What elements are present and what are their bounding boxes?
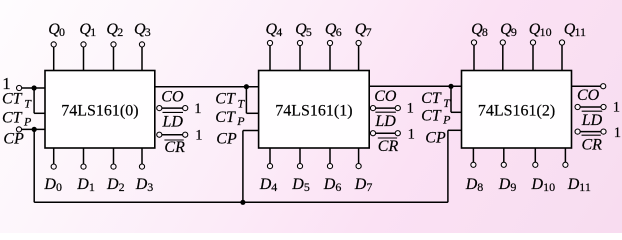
node D10 label [531,176,556,194]
wire CO U2 to CT_T U3 [369,85,461,87]
wire CR tie-high U2 [373,132,398,134]
value 1 on LD U2 [407,101,414,117]
wire junction down to CT_P U3 [451,86,462,112]
node Q6 label [325,21,342,39]
label CO carry output U1 [161,88,184,105]
svg-text:9: 9 [511,25,517,39]
svg-text:CT: CT [2,109,23,126]
svg-text:D: D [43,176,56,193]
svg-text:1: 1 [407,101,414,117]
node Q2 label [106,21,123,39]
svg-text:CR: CR [164,139,185,156]
svg-text:CO: CO [161,88,184,105]
4-bit counter U2 74LS161(1) [259,71,370,149]
svg-text:D: D [135,176,148,193]
svg-text:3: 3 [145,25,151,39]
svg-text:D: D [106,176,119,193]
pin D0 terminal [51,148,56,169]
node D8 label [465,176,484,194]
svg-text:D: D [76,176,89,193]
terminal circle 1-source U1 [17,85,22,90]
svg-text:8: 8 [482,25,488,39]
svg-text:LD: LD [374,113,396,130]
label CT_T input U2 [215,90,245,110]
node D11 label [567,176,591,194]
svg-text:6: 6 [335,180,341,194]
junction CO U2 to CT_P U3 [448,84,453,89]
node D5 label [291,176,310,194]
wire clock riser to CP U2 [243,131,259,203]
wire clock bus left riser [33,129,35,202]
svg-text:P: P [23,115,32,129]
pin Q3 terminal [139,42,144,71]
node D7 label [354,176,373,194]
node Q4 label [266,21,283,39]
label CP clock input U2 [216,130,237,147]
svg-text:0: 0 [59,25,65,39]
pin D7 terminal [356,148,361,169]
pin CR terminal circle at box U2 [370,131,375,136]
pin Q10 terminal [530,40,535,71]
svg-text:D: D [567,176,580,193]
wire CO U1 to CT_T U2 [155,86,259,88]
svg-text:CR: CR [582,137,603,154]
node D3 label [135,176,154,194]
value 1 on LD U1 [194,101,201,117]
pin Q6 terminal [327,40,332,70]
node Q10 label [529,21,552,39]
svg-text:D: D [291,176,304,193]
svg-text:1: 1 [613,100,620,116]
pin Q1 terminal [81,42,86,71]
pin LD terminal circle at box U2 [370,106,375,111]
pin LD terminal circle at box U1 [157,106,162,111]
terminal circle CO U3 output [601,84,606,89]
pin Q9 terminal [500,40,505,71]
svg-text:2: 2 [119,180,125,194]
svg-text:CO: CO [577,87,600,104]
svg-text:3: 3 [147,180,153,194]
svg-text:LD: LD [162,113,184,130]
value 1 on CT_T/CT_P U1 [2,74,11,93]
pin LD tie terminal circle U1 [183,106,188,111]
node D6 label [323,176,342,194]
wire CR tie-high U1 [159,134,185,136]
wire clock riser to CP U3 [448,130,462,202]
node Q11 label [564,21,586,39]
label LD-bar load input U3 [581,111,603,129]
svg-text:74LS161(1): 74LS161(1) [275,103,352,120]
label LD-bar load input U2 [374,112,396,130]
node D2 label [106,176,125,194]
pin Q2 terminal [111,42,116,71]
svg-text:1: 1 [2,74,11,93]
svg-text:CT: CT [215,90,236,107]
4-bit counter U1 74LS161(0) [45,71,155,149]
pin Q0 terminal [51,42,56,71]
wire CR tie-high U3 [578,131,604,133]
svg-text:7: 7 [366,25,372,39]
svg-text:1: 1 [194,101,201,117]
svg-text:P: P [236,114,245,128]
label CT_P input U3 [421,107,451,126]
svg-text:D: D [531,176,544,193]
node Q1 label [79,21,96,39]
terminal circle CP clock input [16,127,21,132]
pin D11 terminal [563,148,568,167]
svg-text:10: 10 [540,25,552,39]
pin CR tie terminal circle U2 [395,131,400,136]
4-bit counter U3 74LS161(2) [462,71,572,149]
svg-text:8: 8 [477,180,483,194]
pin LD terminal circle at box U3 [575,104,580,109]
svg-text:D: D [323,176,336,193]
label LD-bar load input U1 [162,112,184,130]
pin LD tie terminal circle U2 [395,106,400,111]
node Q9 label [500,21,517,39]
value 1 on CR U2 [408,127,415,143]
label CP clock input U3 [425,129,446,146]
label CO carry output U3 [577,87,600,104]
svg-text:CT: CT [421,90,442,107]
wire clock bus bottom [34,201,448,203]
label CT_P input U2 [215,109,245,128]
svg-text:1: 1 [89,180,95,194]
svg-text:0: 0 [56,180,62,194]
junction clock bus to U2 [240,200,245,205]
pin D10 terminal [533,148,538,167]
svg-text:7: 7 [366,180,372,194]
label CR-bar clear input U2 [378,138,399,155]
svg-text:5: 5 [304,180,310,194]
node Q0 label [48,21,65,39]
pin Q7 terminal [356,40,361,70]
svg-text:CO: CO [374,88,397,105]
label CT_P input U1 [2,109,32,128]
pin D9 terminal [501,148,506,167]
node D9 label [498,176,517,194]
svg-text:11: 11 [575,25,587,39]
svg-text:9: 9 [510,180,516,194]
svg-text:LD: LD [581,112,603,129]
svg-text:D: D [465,176,478,193]
pin D1 terminal [81,148,86,169]
svg-text:CP: CP [3,131,24,148]
svg-text:D: D [354,176,367,193]
junction CP U1 / clock bus [32,127,37,132]
svg-text:74LS161(0): 74LS161(0) [61,103,138,120]
wire junction down to CT_P U2 [246,87,258,114]
svg-text:4: 4 [276,25,282,39]
pin CR tie terminal circle U1 [183,132,188,137]
svg-text:D: D [498,176,511,193]
pin CR terminal circle at box U1 [157,132,162,137]
junction CT_T/CT_P U1 [31,85,36,90]
pin Q4 terminal [267,40,272,70]
label CP clock input U1 [3,131,24,148]
pin Q5 terminal [297,40,302,70]
wire junction down to CT_P U1 [34,88,45,113]
svg-text:P: P [442,113,451,127]
label CR-bar clear input U3 [582,135,603,153]
node Q3 label [134,21,151,39]
value 1 on CR U3 [614,125,621,141]
label CR-bar clear input U1 [164,139,185,156]
wire CO U3 output [572,85,601,87]
svg-text:10: 10 [543,180,555,194]
svg-text:74LS161(2): 74LS161(2) [478,103,555,120]
svg-text:CR: CR [378,138,399,155]
svg-text:5: 5 [306,25,312,39]
svg-text:D: D [259,176,272,193]
pin D2 terminal [111,148,116,169]
wire CP terminal to U1 [22,128,46,130]
svg-text:11: 11 [579,180,591,194]
node Q8 label [471,21,488,39]
pin D6 terminal [327,148,332,169]
wire LD tie-high U3 [578,106,604,108]
svg-text:1: 1 [408,127,415,143]
node Q7 label [355,21,372,39]
svg-text:1: 1 [614,125,621,141]
svg-text:6: 6 [336,25,342,39]
pin D3 terminal [139,148,144,169]
pin Q11 terminal [559,40,564,71]
pin CR terminal circle at box U3 [575,129,580,134]
svg-text:CT: CT [215,109,236,126]
label CT_T input U3 [421,90,451,110]
value 1 on LD U3 [613,100,620,116]
node D1 label [76,176,95,194]
wire LD tie-high U1 [159,107,185,109]
pin Q8 terminal [471,40,476,71]
wire LD tie-high U2 [373,107,398,109]
pin CR tie terminal circle U3 [601,129,606,134]
value 1 on CR U1 [195,127,202,143]
node D4 label [259,176,278,194]
junction CO U1 to CT_P U2 [244,84,249,89]
svg-text:CP: CP [216,130,237,147]
label CO carry output U2 [374,88,397,105]
svg-text:1: 1 [195,127,202,143]
pin LD tie terminal circle U3 [601,104,606,109]
pin D8 terminal [471,148,476,167]
node D0 label [43,176,62,194]
svg-text:4: 4 [271,180,277,194]
pin D4 terminal [267,148,272,169]
svg-text:1: 1 [90,25,96,39]
wire 1-source to CT_T U1 [22,87,45,89]
svg-text:CT: CT [421,107,442,124]
svg-text:CP: CP [425,129,446,146]
pin D5 terminal [297,148,302,169]
label CT_T input U1 [2,90,32,110]
svg-text:2: 2 [117,25,123,39]
node Q5 label [295,21,312,39]
